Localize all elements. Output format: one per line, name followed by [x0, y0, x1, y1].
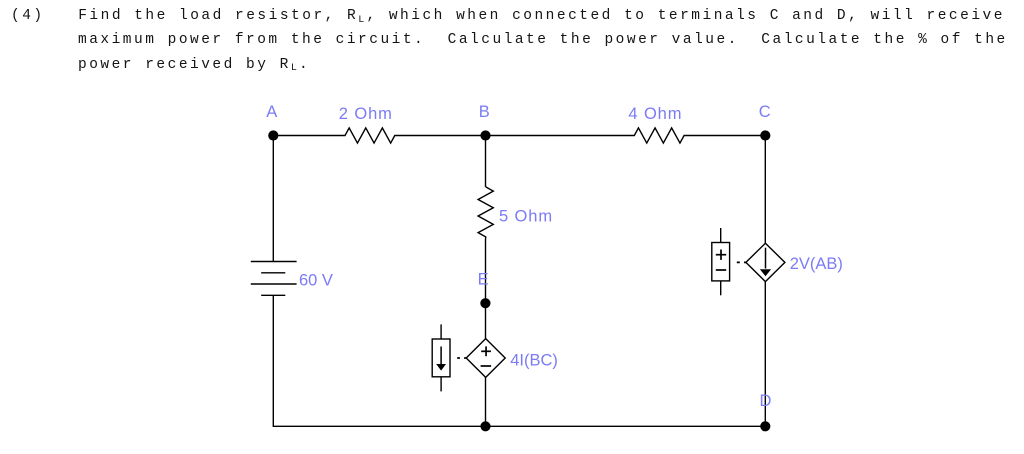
svg-text:A: A	[266, 103, 277, 121]
svg-text:D: D	[760, 392, 772, 410]
svg-text:2V(AB): 2V(AB)	[790, 255, 843, 273]
svg-text:60 V: 60 V	[299, 272, 333, 290]
svg-text:2 Ohm: 2 Ohm	[339, 105, 393, 123]
svg-text:5 Ohm: 5 Ohm	[499, 208, 553, 226]
svg-text:E: E	[478, 271, 489, 289]
svg-text:B: B	[479, 103, 490, 121]
svg-text:C: C	[759, 103, 771, 121]
svg-text:4 Ohm: 4 Ohm	[628, 105, 682, 123]
svg-text:4I(BC): 4I(BC)	[510, 352, 558, 370]
